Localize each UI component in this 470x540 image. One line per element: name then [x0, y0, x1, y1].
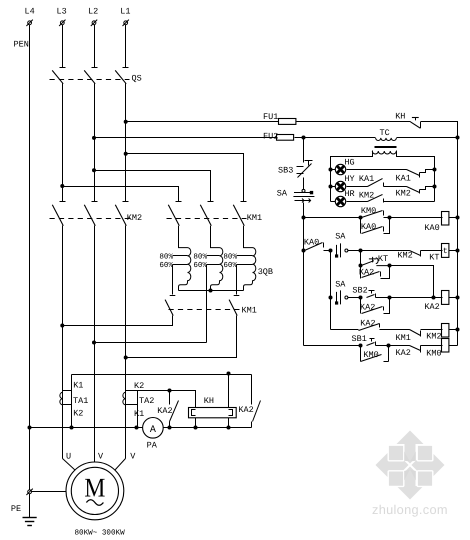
node HY/right edge [433, 185, 437, 189]
svg-text:L3: L3 [57, 7, 67, 17]
TA2 K2 stub [126, 390, 138, 392]
wire TA loop bottom left [30, 427, 143, 429]
ammeter PA [143, 418, 164, 439]
node lamp HG [329, 168, 333, 172]
wire row A from column [331, 329, 359, 331]
svg-text:K1: K1 [73, 380, 83, 390]
node lamp HY [329, 185, 333, 189]
svg-text:KM0: KM0 [361, 206, 376, 216]
wire W phase down [125, 226, 127, 393]
wire rail to KA0 coil [390, 217, 443, 219]
wire KM2 coil to bus [449, 329, 458, 331]
autotransformer 3QB winding 1 [179, 226, 191, 291]
wire L1 to KM1 pole 3 [126, 154, 244, 202]
watermark logo zhulong [376, 431, 445, 500]
contact KA2 (parallel with KT) [362, 266, 390, 279]
winding 2 80% tap [207, 255, 220, 257]
TA1 K2 stub [63, 404, 72, 406]
contactor KM2 pole 2 [84, 202, 97, 226]
svg-text:t: t [443, 247, 448, 256]
pushbutton SB1 [367, 339, 389, 346]
svg-text:KA2: KA2 [360, 303, 375, 313]
contact KA2 (ammeter shunt) [170, 391, 179, 428]
TC secondary winding [372, 151, 396, 154]
terminal L3 [59, 20, 65, 26]
wire SA to SB2 [348, 297, 361, 299]
svg-text:K1: K1 [134, 409, 144, 419]
node L3/KM1 tap [60, 184, 64, 188]
contactor KM1 pole 1 [168, 202, 181, 226]
wire PE down [29, 494, 31, 518]
svg-text:KM1: KM1 [396, 333, 411, 343]
svg-text:60%: 60% [193, 261, 207, 270]
wire SB2 to KA2 coil [390, 297, 443, 299]
wire L1 QS to KM2 [125, 84, 127, 202]
wire W through TA2 [125, 393, 127, 459]
selector switch SA (upper) [293, 189, 314, 202]
svg-text:KA0: KA0 [304, 238, 319, 248]
wire KA2 coil to bus [449, 297, 458, 299]
svg-text:PEN: PEN [14, 40, 29, 50]
selector switch SA (row 297) [335, 290, 348, 304]
node KH left leg bottom [194, 426, 198, 430]
svg-text:KA0: KA0 [361, 222, 376, 232]
KH inner brackets [192, 410, 233, 416]
svg-text:KM2: KM2 [127, 213, 142, 223]
node FU2/SB3 column [302, 136, 306, 140]
svg-text:KA2: KA2 [360, 318, 375, 328]
autotransformer 3QB winding 3 [244, 226, 256, 291]
wire edge to HR lamp [331, 201, 336, 203]
autotransformer 3QB winding 2 [211, 226, 223, 291]
wire TC primary to bus [397, 137, 458, 139]
node bus/row250 [456, 249, 460, 253]
current transformer TA1 [60, 392, 63, 405]
svg-text:A: A [150, 425, 156, 436]
node V/tap2 [92, 341, 96, 345]
svg-text:FU1: FU1 [263, 112, 278, 122]
svg-text:KM2: KM2 [426, 331, 441, 341]
wire HR to KM2 [347, 201, 368, 203]
node SB1 left [359, 344, 363, 348]
wire L1 drop to QS [125, 25, 127, 68]
node W/tap3 [124, 356, 128, 360]
relay coil KA0 [442, 212, 449, 226]
wire W into motor [115, 459, 126, 471]
wire row B from SA column [304, 345, 361, 347]
node L1/KM1 tap [124, 152, 128, 156]
lamp HG [335, 164, 345, 174]
contact KA0 (row 250) [305, 243, 331, 251]
contactor coil KM0 [442, 339, 449, 353]
node row297/column [329, 296, 333, 300]
contactor KM1 lower pole 2 [229, 296, 239, 316]
selector switch SA (row 250) [335, 243, 348, 257]
wire L2 to KM1 pole 2 [95, 171, 211, 202]
node bus/TC [456, 136, 460, 140]
svg-text:80KW~ 300KW: 80KW~ 300KW [75, 529, 126, 538]
node TA2 K1 [135, 426, 139, 430]
thermal element KH [189, 408, 237, 418]
wire FU1 feed [126, 121, 279, 123]
node row250 left [302, 249, 306, 253]
KM1 mechanical link [167, 218, 247, 220]
svg-text:KT: KT [429, 252, 439, 262]
node KH leg top [227, 372, 231, 376]
node KT contact [359, 264, 363, 268]
node rail left [302, 216, 306, 220]
contact KA0 (bypass) [361, 218, 390, 234]
terminal L2 [91, 20, 97, 26]
svg-text:HG: HG [344, 158, 354, 168]
node L2/FU2 tap [92, 136, 96, 140]
svg-text:SA: SA [277, 189, 288, 199]
node SB2 left [359, 296, 363, 300]
wire FU2 to TC [295, 137, 376, 139]
contact KA2 (right, TA loop) [252, 375, 261, 428]
svg-text:KA2: KA2 [359, 268, 374, 278]
node bus/row297 [456, 296, 460, 300]
svg-text:KA2: KA2 [157, 406, 172, 416]
motor M [66, 462, 124, 520]
node bus/rowA [456, 328, 460, 332]
svg-text:KH: KH [204, 396, 214, 406]
contact KM0 (rail) [362, 211, 390, 218]
winding 2 60% tap [207, 264, 220, 266]
wire edge to HG lamp [331, 169, 336, 171]
node KT-block/row297 [432, 296, 436, 300]
TC core line 2 [375, 147, 397, 149]
svg-text:SB1: SB1 [352, 334, 367, 344]
KM1 lower mechanical link [169, 309, 241, 311]
wire KH to right bus [421, 122, 458, 138]
contactor KM1 pole 3 [233, 202, 246, 226]
wire to KM2 contact [361, 250, 410, 252]
QS pole 1 [52, 68, 65, 84]
fuse FU1 [279, 119, 296, 125]
wire 60% tap w1 down [172, 265, 174, 295]
svg-text:KA1: KA1 [359, 174, 374, 184]
svg-text:KA1: KA1 [396, 173, 411, 183]
winding 1 60% tap [173, 264, 188, 266]
pushbutton SB3 [297, 161, 313, 178]
KH right leg lower [228, 418, 230, 428]
wire TA loop bottom right [164, 427, 252, 429]
svg-text:80%: 80% [193, 253, 207, 262]
wire w2 tap to V [95, 342, 207, 344]
time contact KT [362, 257, 390, 266]
wire rail to KM0 [304, 217, 361, 219]
node KH right leg bottom [227, 426, 231, 430]
wire L3 drop to QS [62, 25, 64, 68]
svg-text:U: U [66, 452, 71, 462]
svg-text:KA2: KA2 [238, 405, 253, 415]
contact KM2 (KT coil row) [410, 251, 443, 257]
winding 3 60% tap [237, 264, 253, 266]
fuse FU2 [277, 135, 294, 141]
node PEN/TA loop [28, 426, 32, 430]
svg-text:TA1: TA1 [73, 396, 88, 406]
node HG/right edge [433, 168, 437, 172]
TA2 secondary bracket [137, 391, 139, 428]
TC core line 1 [375, 146, 397, 148]
wire L3 to KM1 pole 1 [63, 187, 179, 202]
QS pole 2 [84, 68, 97, 84]
svg-text:L4: L4 [25, 7, 35, 17]
node KA2 contact top [168, 389, 172, 393]
wire L2 QS to KM2 [94, 84, 96, 202]
svg-text:V: V [130, 452, 136, 462]
wire SA to control rows [303, 203, 305, 346]
svg-text:KA2: KA2 [424, 302, 439, 312]
TA1 K1 stub [63, 390, 72, 392]
svg-text:KT: KT [378, 254, 388, 264]
terminal L4 [26, 20, 32, 26]
time relay coil KT [442, 244, 449, 258]
wire KH right leg [228, 375, 230, 408]
node KT right [388, 264, 392, 268]
wire L3 QS to KM2 [62, 84, 64, 202]
contactor coil KM2 [442, 324, 449, 338]
wire KA0 coil to bus [449, 217, 458, 219]
TC primary winding [376, 138, 397, 141]
wire HY to KA1 [347, 186, 368, 188]
contactor KM1 lower pole 1 [165, 296, 175, 316]
svg-text:HY: HY [344, 174, 354, 184]
wire KM0 coil to bus [449, 345, 458, 347]
wire column 331 [330, 251, 332, 330]
node KM0 left [359, 216, 363, 220]
contact KA2 (bypass SB2) [361, 298, 390, 314]
ground symbol [23, 518, 37, 526]
contactor KM1 pole 2 [200, 202, 213, 226]
wire winding star bus [179, 290, 244, 292]
terminal PE [26, 489, 32, 495]
svg-text:SB2: SB2 [352, 285, 367, 295]
wire V phase down [94, 226, 96, 463]
node TA1 K2 [70, 426, 74, 430]
contactor KM2 pole 1 [52, 202, 65, 226]
wire TA2 K2 to KH [138, 391, 196, 408]
wire w1 tap to U [63, 316, 173, 326]
svg-text:SA: SA [335, 280, 346, 290]
wire U through TA1 [62, 393, 64, 459]
winding 3 80% tap [237, 255, 253, 257]
QS pole 3 [115, 68, 128, 84]
svg-text:60%: 60% [223, 261, 237, 270]
svg-text:PA: PA [147, 440, 158, 450]
wire HG row [347, 169, 407, 171]
svg-text:3QB: 3QB [258, 267, 273, 277]
svg-text:KA2: KA2 [396, 348, 411, 358]
svg-text:K2: K2 [134, 381, 144, 391]
KH left leg lower [195, 418, 197, 428]
wire KT coil to bus [449, 250, 458, 252]
QS mechanical link [50, 79, 130, 81]
svg-text:M: M [84, 473, 105, 503]
wire w3 tap to W [126, 316, 237, 358]
svg-text:TA2: TA2 [139, 396, 154, 406]
svg-text:KM1: KM1 [247, 213, 262, 223]
svg-text:QS: QS [132, 74, 142, 84]
contact KA1 (HG row) [407, 170, 435, 178]
node bus/rail [456, 216, 460, 220]
wire 60% tap w2 down [206, 265, 208, 343]
node KA2 shunt bottom [168, 426, 172, 430]
node L2/KM1 tap [92, 168, 96, 172]
wire TC secondary right / lamp box right edge [397, 151, 435, 202]
wire 60% tap w3 down [236, 265, 238, 295]
svg-text:KM2: KM2 [397, 251, 412, 261]
wire TC secondary left / lamp box left edge [331, 151, 373, 202]
svg-text:80%: 80% [223, 253, 237, 262]
node U/tap1 [60, 324, 64, 328]
svg-text:60%: 60% [159, 261, 173, 270]
contact KM0 (bypass SB1) [361, 346, 389, 362]
svg-text:V: V [98, 452, 104, 462]
contact KM2 (HR row) [368, 195, 435, 203]
svg-text:KM1: KM1 [242, 306, 257, 316]
svg-text:PE: PE [11, 504, 21, 514]
wire to SB3 [303, 138, 305, 163]
contact KA2 (row A) [359, 324, 410, 331]
svg-text:KM2: KM2 [359, 190, 374, 200]
wire U phase down [62, 226, 64, 393]
svg-text:KM0: KM0 [426, 348, 441, 358]
thermal contact KH [410, 118, 420, 129]
KM2 mechanical link [50, 218, 131, 220]
wire U into motor [63, 459, 76, 471]
svg-text:K2: K2 [73, 409, 83, 419]
TA1 secondary bracket [71, 375, 73, 428]
node SB1 right [387, 344, 391, 348]
node L1/FU1 tap [124, 120, 128, 124]
wire right bus [457, 138, 459, 346]
node KM0 right [388, 216, 392, 220]
lamp HR [335, 196, 345, 206]
pushbutton SB2 [367, 291, 390, 298]
wire motor to PE [32, 491, 67, 493]
wire edge to HY lamp [331, 186, 336, 188]
terminal L1 [123, 20, 129, 26]
node SB2 right [388, 296, 392, 300]
winding 1 80% tap [173, 255, 188, 257]
svg-text:80%: 80% [159, 253, 173, 262]
wire SB3 to SA [303, 178, 305, 190]
node row250/KT-column [359, 249, 363, 253]
svg-text:HR: HR [344, 189, 354, 199]
svg-text:FU2: FU2 [263, 132, 278, 142]
wire column 361 [360, 251, 362, 279]
node row250/column [329, 249, 333, 253]
wire TA loop top [72, 374, 252, 376]
node star bus center [209, 289, 213, 293]
wire SA to node [348, 250, 361, 252]
contact KA2 NC (row B) [410, 346, 443, 353]
wire FU1 to KH [297, 121, 411, 123]
current transformer TA2 [123, 392, 126, 405]
wire L2 drop to QS [94, 25, 96, 68]
svg-text:KM2: KM2 [396, 189, 411, 199]
contact KM2 (HY row right) [407, 187, 435, 194]
TA2 K1 stub [126, 404, 138, 406]
wire KT block to KA2 coil row [390, 266, 434, 298]
svg-text:KA0: KA0 [424, 223, 439, 233]
svg-text:SA: SA [335, 231, 346, 241]
wire FU2 feed [95, 137, 278, 139]
contact KA1 (HY row) [368, 179, 407, 187]
svg-text:KH: KH [395, 111, 405, 121]
relay coil KA2 [442, 291, 449, 305]
lamp HY [335, 181, 345, 191]
contactor KM2 pole 3 [115, 202, 128, 226]
svg-text:SB3: SB3 [278, 165, 293, 175]
svg-text:L2: L2 [88, 7, 98, 17]
svg-text:KM0: KM0 [363, 350, 378, 360]
wire SB1 to KA2 [389, 345, 410, 347]
svg-text:L1: L1 [120, 7, 130, 17]
wire PEN vertical [29, 25, 31, 490]
svg-text:zhulong.com: zhulong.com [372, 502, 448, 517]
svg-text:TC: TC [380, 128, 390, 138]
contact KM1 NC (row A) [410, 330, 443, 337]
